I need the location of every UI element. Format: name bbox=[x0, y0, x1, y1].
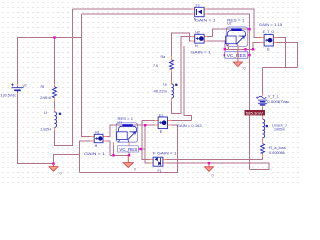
pin Lmach bottom bbox=[262, 138, 264, 143]
svg-text:H: H bbox=[195, 44, 198, 48]
svg-text:130.5Vdc: 130.5Vdc bbox=[1, 94, 17, 98]
node junction U1 ground bbox=[128, 154, 130, 156]
svg-text:R_a_loss: R_a_loss bbox=[269, 146, 286, 150]
svg-text:F2: F2 bbox=[196, 4, 200, 8]
op block H2 bbox=[195, 34, 204, 43]
svg-text:Ra: Ra bbox=[161, 55, 166, 59]
svg-text:H: H bbox=[95, 144, 98, 148]
node junction ground mid rail bbox=[208, 162, 210, 164]
pin U2 bottom stubs bbox=[229, 45, 238, 48]
pin H2 right bbox=[204, 35, 208, 37]
svg-text:0.000086: 0.000086 bbox=[269, 151, 285, 155]
op block F1 bbox=[153, 157, 163, 166]
pin Ra top bbox=[171, 56, 173, 60]
svg-text:GAIN = 1: GAIN = 1 bbox=[191, 50, 212, 54]
pin VT bottom bbox=[17, 93, 19, 95]
op block F2 bbox=[195, 7, 204, 16]
resistor Rf bbox=[53, 87, 57, 98]
wire right step to V_T_L bbox=[263, 66, 298, 68]
node junction column RES bbox=[248, 28, 250, 30]
inductor Lmach_J bbox=[263, 119, 265, 138]
pin R_a_loss top bbox=[262, 141, 264, 144]
wire Lf bottom to loop corner bbox=[55, 9, 73, 145]
svg-text:F GAIN = 1: F GAIN = 1 bbox=[153, 151, 177, 155]
ground 0 under U2 bbox=[233, 50, 246, 71]
svg-text:VC_RES: VC_RES bbox=[227, 53, 246, 58]
pin H1 right bbox=[103, 136, 107, 138]
svg-text:Le: Le bbox=[163, 83, 167, 87]
node dot Lf polarity bbox=[59, 113, 62, 116]
wire H1 lower-right to bottom bbox=[103, 141, 110, 155]
wire E_T_O right upper loop bbox=[273, 38, 285, 68]
wire Lmach to R_a_loss bbox=[262, 138, 264, 144]
pin Lf top bbox=[54, 108, 56, 112]
block U2 VC_RES body bbox=[226, 27, 248, 46]
svg-text:H2: H2 bbox=[195, 30, 200, 34]
svg-text:VC_RES: VC_RES bbox=[119, 147, 137, 152]
wire H1 lower-left to bottom rail bbox=[80, 141, 95, 173]
pin V_T_L top bbox=[262, 94, 264, 97]
svg-text:249.6: 249.6 bbox=[40, 96, 51, 100]
wire VT bottom vertical bbox=[18, 94, 54, 164]
svg-text:GAIN = 0.163: GAIN = 0.163 bbox=[177, 124, 202, 128]
ground 0 under U1 bbox=[123, 155, 137, 171]
node junction U2 left bbox=[224, 54, 226, 56]
inductor Le bbox=[172, 84, 174, 98]
wire E_T_O right lower loop bbox=[273, 42, 297, 67]
node junction bottom-left ground bbox=[52, 163, 54, 165]
wire U1 right bottom pin drop bbox=[128, 145, 130, 156]
pin Lmach top bbox=[262, 117, 264, 120]
pin V_T_L bottom bbox=[262, 105, 264, 108]
pin R_a_loss bottom bbox=[262, 153, 264, 157]
wire H2 upper-left armature return bbox=[181, 36, 195, 113]
selected label 585.3mV bbox=[245, 110, 266, 115]
wire top rail 2 to F2 bbox=[82, 13, 192, 15]
wire E1 lower-left to F1 bbox=[145, 125, 158, 163]
wire H2 right lower to node bbox=[204, 41, 225, 49]
node junction rail U2 left bbox=[224, 48, 226, 50]
svg-text:V_T_L: V_T_L bbox=[268, 95, 279, 99]
wire top rail 1 to F2 bbox=[73, 8, 192, 10]
svg-text:U1: U1 bbox=[118, 121, 123, 125]
node junction top-left bbox=[53, 36, 55, 38]
svg-text:GAIN = 1: GAIN = 1 bbox=[195, 18, 216, 22]
svg-text:0.00067Vac: 0.00067Vac bbox=[267, 100, 289, 104]
wire H1 upper-right riser to U1 bar rail bbox=[103, 125, 145, 136]
ground 0 bottom rail bbox=[205, 164, 215, 178]
svg-text:E1: E1 bbox=[159, 113, 163, 117]
node junction E_T_O step bbox=[252, 48, 254, 50]
wire E1 lower-right pin bbox=[168, 124, 178, 126]
wire E1 upper-right loop bbox=[168, 119, 192, 121]
svg-text:U2: U2 bbox=[227, 22, 232, 26]
wire F2 right lower into long column bbox=[204, 14, 250, 170]
svg-text:F1: F1 bbox=[158, 169, 162, 173]
pin F2 left bbox=[192, 8, 195, 10]
label box VC_RES U2 bbox=[225, 52, 248, 58]
label box VC_RES U1 bbox=[118, 146, 139, 152]
op block H1 bbox=[94, 134, 103, 142]
wire H2 right upper riser to U2 bar rail bbox=[204, 29, 250, 37]
source V_T_L bbox=[256, 96, 267, 105]
node junction U1 bar bbox=[144, 124, 146, 126]
pin Le bottom bbox=[171, 98, 173, 102]
node dot Le polarity bbox=[175, 84, 178, 87]
svg-text:7.6: 7.6 bbox=[153, 64, 158, 68]
pin H2 left bbox=[191, 35, 195, 37]
wire bottom rail to E1 riser bbox=[80, 125, 178, 172]
pin Rf top bbox=[54, 84, 56, 87]
node junction U1 bottom left bbox=[112, 154, 114, 156]
pin H1 left bbox=[91, 136, 95, 138]
block U1 VC_RES body bbox=[116, 123, 138, 142]
wire chain top over to H2 lower-left bbox=[172, 33, 195, 60]
node junction U1 rail2 bbox=[140, 148, 142, 150]
svg-text:Lf: Lf bbox=[44, 111, 47, 115]
resistor Ra bbox=[170, 60, 174, 69]
pin F1 left bbox=[150, 159, 154, 161]
op block E1 bbox=[158, 117, 167, 129]
op block E_T_O bbox=[264, 35, 273, 46]
node junction rail U2 right bbox=[244, 48, 246, 50]
pin Rf bottom bbox=[54, 98, 56, 101]
svg-text:1.82H: 1.82H bbox=[40, 128, 51, 132]
wire U2 right bottom pin drop bbox=[237, 46, 239, 49]
wire V_T_L to Lmach bbox=[262, 106, 264, 119]
wire F1 right upper long rail bbox=[163, 159, 263, 161]
inductor Lf bbox=[55, 112, 57, 127]
svg-text:GAIN = 1: GAIN = 1 bbox=[84, 152, 105, 156]
wire F1 right lower long rail bbox=[163, 163, 269, 169]
pin E_T_O left bbox=[261, 37, 265, 39]
wire U1 bar rail to E1 riser bbox=[133, 148, 145, 150]
wire E_T_O lower-left two-step to rail bbox=[253, 42, 264, 49]
node dot Lmach polarity bbox=[266, 125, 269, 128]
pin Le top bbox=[171, 81, 173, 85]
pin Lf bottom bbox=[54, 128, 56, 132]
svg-text:585.3mV: 585.3mV bbox=[246, 111, 264, 115]
svg-text:H1: H1 bbox=[95, 130, 100, 134]
resistor R_a_loss bbox=[261, 144, 265, 154]
wire top-left horizontal bbox=[17, 37, 82, 39]
wire Le bottom U-turn bbox=[172, 98, 181, 113]
wire Rf-Lf branch vertical bbox=[54, 38, 56, 87]
wire U1 left bottom pin drop bbox=[113, 145, 115, 155]
ground 0 left bbox=[49, 164, 63, 175]
svg-text:46.22m: 46.22m bbox=[154, 90, 168, 94]
pin F2 right bbox=[204, 8, 208, 10]
pin U1 bottom stubs bbox=[114, 142, 130, 145]
wire U1 bottom rail bbox=[110, 154, 129, 156]
pin VT top bbox=[17, 84, 19, 87]
wire V_T_L top bbox=[262, 67, 264, 94]
wire vertical x81.5 down to H1 upper-left bbox=[82, 14, 95, 137]
wire F2 right upper to x253.9 bbox=[204, 9, 264, 37]
wire ground rail U2 bbox=[225, 48, 253, 50]
battery VT bbox=[11, 83, 24, 92]
pin Ra bottom bbox=[171, 69, 173, 73]
wire VT top vertical bbox=[17, 38, 19, 86]
wire sense riser to E1 bbox=[184, 46, 191, 120]
svg-text:GAIN = 1.15: GAIN = 1.15 bbox=[259, 23, 283, 27]
svg-text:.1905m: .1905m bbox=[273, 128, 285, 132]
wire E1 upper-left to F1 bbox=[142, 120, 158, 159]
wire between Rf and Lf bbox=[54, 98, 56, 112]
PIN STUBS bbox=[18, 9, 277, 163]
pin E1 left bbox=[155, 119, 159, 121]
pin F1 right bbox=[163, 159, 167, 161]
svg-text:E_T_O: E_T_O bbox=[263, 30, 275, 34]
pin E_T_O right bbox=[273, 37, 277, 39]
wire R_a_loss bottom bbox=[262, 153, 264, 160]
wire node0 riser branch bbox=[54, 154, 80, 163]
wire U2 left bottom pin drop bbox=[228, 46, 230, 49]
svg-text:VT: VT bbox=[23, 84, 28, 88]
pin E1 right bbox=[168, 119, 172, 121]
svg-text:Rf: Rf bbox=[41, 85, 45, 89]
wire between Ra and Le bbox=[171, 69, 173, 84]
node junction column 55 bbox=[248, 54, 250, 56]
